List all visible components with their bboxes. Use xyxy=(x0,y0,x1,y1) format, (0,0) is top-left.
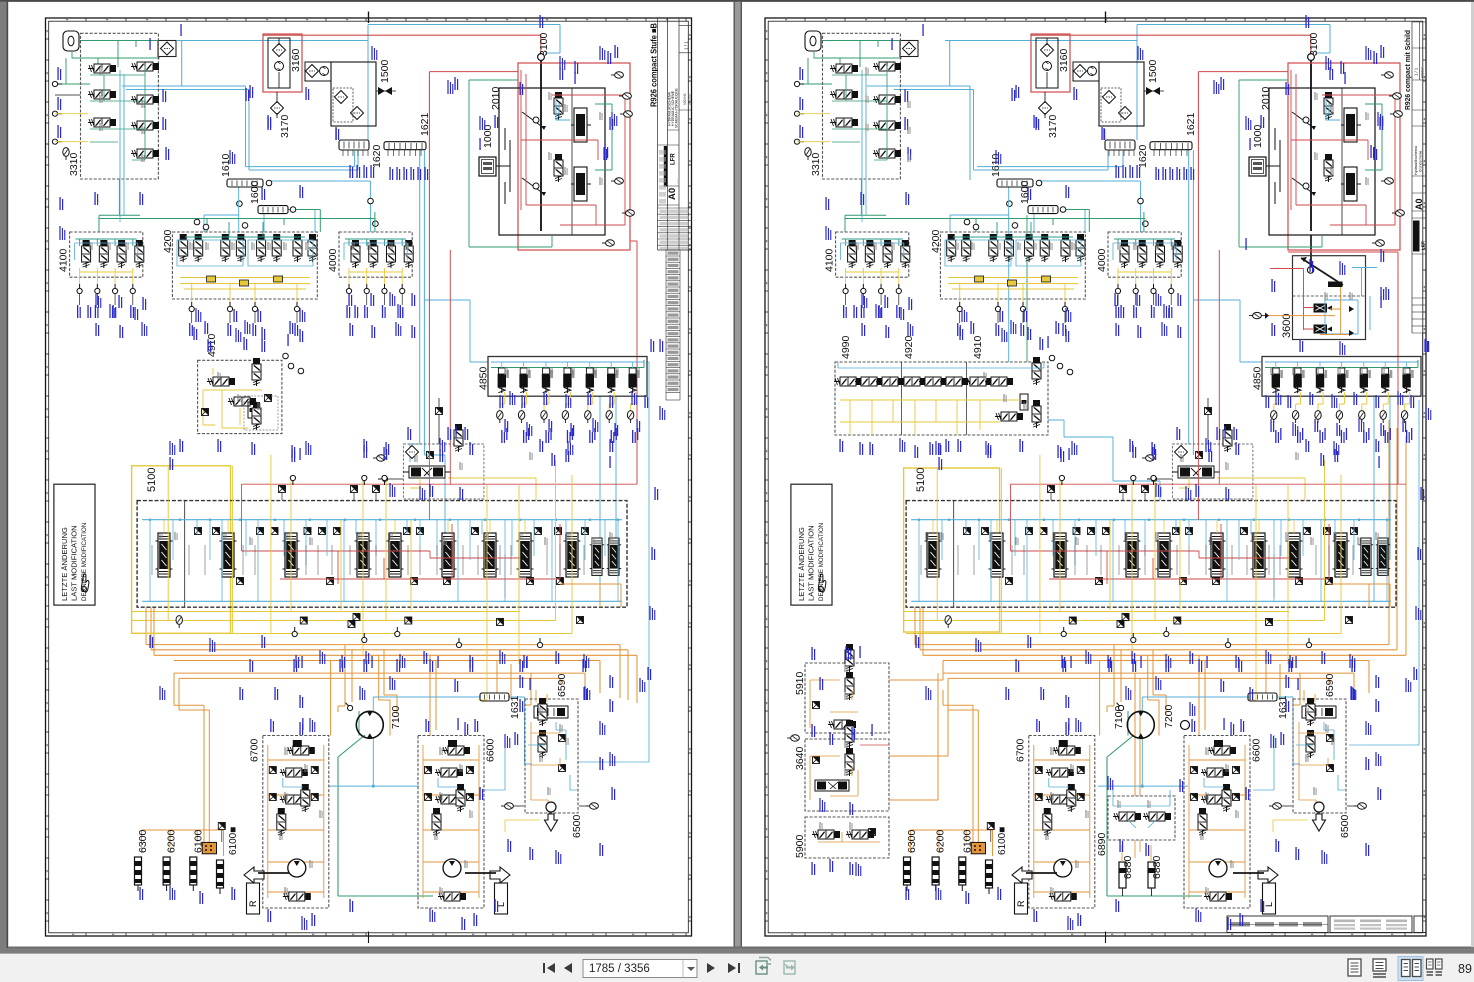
valve 49x0-6 P2 xyxy=(940,377,968,386)
pump inlet port P1 xyxy=(344,701,354,712)
variable pump P2 P1 xyxy=(571,108,591,142)
svg-text:LAST MODIFICATION: LAST MODIFICATION xyxy=(806,525,815,601)
valve 4910-3 P1 xyxy=(252,358,261,386)
yellow box-band P2 xyxy=(937,468,1001,492)
svg-text:Hydraulikschema: Hydraulikschema xyxy=(1414,145,1418,175)
gap between pages xyxy=(734,2,743,947)
check valves 3600 P2 xyxy=(1349,306,1354,336)
node 3100 P1 xyxy=(538,54,545,61)
red 2010-band P2 xyxy=(1288,252,1398,484)
spool section small 5100-10 P2 xyxy=(1359,538,1373,575)
shuttle 6600 P2 xyxy=(1204,892,1232,901)
pilot valve 3310-3 P1 xyxy=(88,118,116,127)
pilot lines 5100 P2 xyxy=(921,545,1377,575)
yellow drop 4850-7 P2 xyxy=(1405,392,1410,410)
blue labels 3310 P1 xyxy=(57,67,61,80)
valve 4200-7 P1 xyxy=(293,234,302,262)
cyan T2 line 6600 P2 xyxy=(1204,778,1224,787)
cyan 1610 drop xyxy=(238,187,240,232)
orange bundle rows P2 xyxy=(915,645,1406,693)
brake valve 6700 P1 xyxy=(301,784,310,812)
big valve 3640 P2 xyxy=(815,780,849,791)
check valve 5100-10 P1 xyxy=(472,528,479,535)
orange risers 6590 P2 xyxy=(1266,661,1300,706)
port label 4200-1 P2 xyxy=(957,323,961,336)
cyan below 3310 P2 xyxy=(862,179,866,222)
aux valve 5100-3 P1 xyxy=(411,578,418,585)
yellow left bundle P2 xyxy=(903,612,1341,634)
cyan 1600 right link P2 xyxy=(1066,210,1085,233)
svg-text:3100: 3100 xyxy=(538,32,550,56)
5100 inner divider P2 xyxy=(953,501,955,608)
spool section small 5100-11 P1 xyxy=(607,538,621,575)
shaft line 1800 P2 xyxy=(1266,128,1280,204)
accumulator 2 P2 xyxy=(932,857,939,891)
svg-text:6890: 6890 xyxy=(1096,832,1108,856)
check 6590 P2 xyxy=(1327,735,1334,742)
cyan riser tank P2 xyxy=(949,41,951,87)
blue labels below 5100 P2 xyxy=(1062,659,1066,672)
last-modification box P2 xyxy=(791,484,832,605)
cyan right descenders P2 xyxy=(1374,396,1390,601)
two page layout icon selected xyxy=(1398,957,1423,981)
last page button xyxy=(728,963,740,973)
yellow bus 4100 P1 xyxy=(80,268,133,272)
red pilot 3600 P2 xyxy=(1270,269,1313,331)
pilot valve 3310-6 P1 xyxy=(131,121,159,130)
yellow drain 6500 P1 xyxy=(505,820,540,832)
port label 4100-1 P2 xyxy=(843,305,847,318)
gauge 4850-5 P1 xyxy=(585,411,591,423)
yellow distribution 4200 P1 xyxy=(180,278,310,303)
check valve 5100-12 P1 xyxy=(555,528,562,535)
cyan riser from tank xyxy=(181,41,183,87)
svg-text:2010: 2010 xyxy=(490,86,502,110)
cyan link 6590 P2 xyxy=(1278,697,1300,764)
crawler flag L P1 xyxy=(490,867,510,914)
cyan pair 3310 to 1620 xyxy=(122,86,355,167)
svg-text:1600: 1600 xyxy=(249,180,261,204)
teal feed 4000 P2 xyxy=(1114,239,1175,246)
aux valve 5100-1 P2 xyxy=(1006,578,1013,585)
green pump suction xyxy=(358,711,360,736)
check valve 5100-11 P1 xyxy=(535,528,542,535)
svg-text:6300: 6300 xyxy=(137,829,149,853)
blue label right 4850 P1 xyxy=(650,339,654,352)
cyan upper run to 3100 xyxy=(368,25,560,54)
teal top feed 4200 P1 xyxy=(185,222,305,237)
check valve 5100-1 P2 xyxy=(964,528,971,535)
two page continuous icon xyxy=(1427,959,1443,975)
valve 4200-1 P1 xyxy=(179,234,188,262)
cyan net 6590 P1 xyxy=(528,722,578,790)
aux valve 5100-5 P1 xyxy=(527,578,534,585)
port label 4850-5 P1 xyxy=(589,430,593,443)
port 4100-1 P2 xyxy=(843,284,848,294)
svg-text:4850: 4850 xyxy=(478,366,490,390)
svg-text:5100: 5100 xyxy=(915,468,927,492)
filter 3160 inner box P2 xyxy=(1036,38,1058,88)
port label 4200-3 P2 xyxy=(1020,323,1024,336)
valve 5910-2 P2 xyxy=(845,672,854,700)
valve 4200-5 P1 xyxy=(257,234,266,262)
valve 6590-1 P1 xyxy=(538,698,547,726)
yellow lines 4910 P1 xyxy=(203,368,262,428)
orange bundle rows xyxy=(146,645,637,703)
valve 49x0-4 P2 xyxy=(898,377,926,386)
manifold 1600 P1 xyxy=(258,206,288,214)
small gauge 7040 P1 xyxy=(373,455,385,461)
valve 3600-1 P2 xyxy=(1314,304,1333,313)
previous view button xyxy=(756,958,771,975)
ports 4910 P1 xyxy=(283,353,289,359)
cyan top 49x0 P2 xyxy=(838,362,1044,368)
svg-text:3310: 3310 xyxy=(68,152,80,176)
svg-text:6600: 6600 xyxy=(485,738,497,762)
valve 4100-4 P1 xyxy=(135,240,144,268)
spool section 5100-6 P2 xyxy=(1209,533,1226,577)
port A2 P2 xyxy=(794,111,804,116)
tilt sensor lever 3600 P2 xyxy=(1301,258,1343,285)
svg-text:1631: 1631 xyxy=(1277,695,1289,719)
window left edge line xyxy=(7,0,9,948)
blue labels 3600 P2 xyxy=(1380,249,1384,262)
orange internals 6590 P1 xyxy=(531,722,560,806)
yellow spool feed 5100-6 P2 xyxy=(1216,520,1218,533)
port 4000-1 P1 xyxy=(346,284,351,294)
teal top feed 4200 P2 xyxy=(953,222,1073,237)
yellow spool feed 5100-7 P1 xyxy=(489,520,491,533)
page 1 drawing frame xyxy=(46,18,692,936)
title P1 left tiny rows xyxy=(659,150,666,204)
swing motor 6500 P2 xyxy=(1314,802,1324,812)
spool section 5100-2 P2 xyxy=(989,533,1006,577)
solenoid pair 6600 P1 xyxy=(442,746,470,755)
main pump 7100 P2 xyxy=(1127,711,1154,738)
port label 4200-2 P2 xyxy=(995,323,999,336)
yellow pilot out P2 xyxy=(1179,478,1305,500)
cyan below 3310 P1 xyxy=(120,179,124,222)
gauge 5900 P2 xyxy=(787,735,799,741)
title P2 small table xyxy=(1412,305,1426,326)
port label 4100-2 P1 xyxy=(95,305,99,318)
ports above 5100 P2 xyxy=(1059,475,1064,485)
xbox 5900 P2 xyxy=(869,829,876,836)
svg-text:6590: 6590 xyxy=(1324,673,1336,697)
svg-text:4100: 4100 xyxy=(58,248,70,272)
blue labels 3160 P1 xyxy=(267,117,271,130)
shuttle 6700 P2 xyxy=(1049,892,1077,901)
valve 4200-5 P2 xyxy=(1025,234,1034,262)
ports below 5100 P1 xyxy=(292,627,297,637)
valve 4200-2 P2 xyxy=(962,234,971,262)
port 4000-4 P1 xyxy=(400,284,405,294)
gauge 4850-5 P2 xyxy=(1359,411,1365,423)
valve 6590-2 P1 xyxy=(538,730,547,758)
yellow spool feed 5100-1 P1 xyxy=(163,520,165,533)
check valve 3160 P1 xyxy=(272,43,285,56)
accumulator 2 P1 xyxy=(163,857,170,891)
port T 4000 top P2 xyxy=(1138,198,1144,204)
red band left entry P2 xyxy=(1218,250,1220,447)
green return long xyxy=(338,735,433,896)
cyan bus 4850 P1 xyxy=(491,361,644,363)
main line to 3600 P2 xyxy=(1310,235,1312,267)
cyan drop 1621 pair xyxy=(420,150,425,455)
port circles manifold area P2 xyxy=(1007,201,1013,207)
port label 4200-4 P2 xyxy=(1062,323,1066,336)
svg-text:1 / 1: 1 / 1 xyxy=(1414,67,1419,76)
yellow spool feed 5100-8 P2 xyxy=(1293,520,1295,533)
small gauge 7040 P2 xyxy=(1142,455,1154,461)
main valve 6700-1 P2 xyxy=(1046,768,1074,777)
gauge 4850-3 P1 xyxy=(541,411,547,423)
gauge 4850-4 P1 xyxy=(562,411,568,423)
spool section 5100-9 P1 xyxy=(564,533,581,577)
shuttle valve 4200-1 P1 xyxy=(207,276,216,282)
gauge 4850-2 P2 xyxy=(1292,411,1298,423)
ports near 4100 top P1 xyxy=(194,219,200,225)
blue labels 6600 P1 xyxy=(425,719,429,732)
block 3600 P2 xyxy=(1293,256,1366,340)
port 1600 P1 xyxy=(290,207,296,213)
valve 4100-4 P2 xyxy=(901,240,910,268)
solenoid valve 4850-7 P1 xyxy=(628,368,639,393)
cyan right edge drop xyxy=(578,362,649,762)
last-modification box P1 xyxy=(54,484,95,605)
cyan left riser to 4100 xyxy=(204,215,239,232)
title P1 revision strip xyxy=(666,250,680,400)
shutoff valve 1500 P1 xyxy=(378,87,392,95)
yellow drop 4850-1 P1 xyxy=(500,392,505,410)
gear box 1800 P1 xyxy=(479,157,496,176)
xbox 5910 P2 xyxy=(813,702,820,709)
check valve 5100-4 P1 xyxy=(271,528,278,535)
first page button xyxy=(543,963,555,973)
pump block 2010 outline P2 xyxy=(1269,88,1375,235)
valve block 4100 P2 xyxy=(836,232,909,277)
yellow drop 4850-5 P1 xyxy=(588,392,593,410)
gauge 4850-2 P1 xyxy=(518,411,524,423)
valve 4100-3 P2 xyxy=(883,240,892,268)
check 6590 P1 xyxy=(559,735,566,742)
port 4000-2 P1 xyxy=(364,284,369,294)
port label 4850-3 P1 xyxy=(545,430,549,443)
xboxes 4910 P1 xyxy=(202,409,209,416)
next view button xyxy=(784,961,795,974)
motor circle 6700 P2 xyxy=(1054,859,1072,877)
below pages background xyxy=(0,949,1474,954)
green main return P2 xyxy=(845,179,1145,232)
motor-filter box P2 xyxy=(1073,62,1099,81)
valve 3600-2 P2 xyxy=(1314,325,1333,334)
motor circle 6700 P1 xyxy=(288,859,306,877)
port label 4850-6 P1 xyxy=(611,430,615,443)
gap left edge xyxy=(734,2,735,947)
valve 4100-2 P2 xyxy=(865,240,874,268)
main valve 6600-1 P2 xyxy=(1201,768,1229,777)
pilot valve 3310-7 P1 xyxy=(131,149,159,158)
check valve 5100-2 P2 xyxy=(982,528,989,535)
yellow band to 6600 xyxy=(478,634,487,701)
port 7040 P2 xyxy=(1147,476,1157,481)
component ref marks P2 xyxy=(866,67,869,75)
motor-filter box P1 xyxy=(305,62,331,81)
yellow drop 4850-6 P2 xyxy=(1383,392,1388,410)
valve 3640-2 P2 xyxy=(845,748,854,776)
crawler flag L P2 xyxy=(1258,867,1278,914)
aux valve 5100-3 P2 xyxy=(1180,578,1187,585)
svg-text:1500: 1500 xyxy=(1147,59,1159,83)
cyan right edge drop P2 xyxy=(1349,400,1419,745)
relief below 5100 P2 xyxy=(1069,617,1076,624)
pilot valve 3310-3 P2 xyxy=(830,118,858,127)
main valve 6600-2 P2 xyxy=(1201,795,1229,804)
title block P1 grid xyxy=(658,18,692,250)
valve 6890-2 P2 xyxy=(1143,812,1171,821)
previous page button xyxy=(564,963,572,973)
cyan 1610 to 4000 xyxy=(268,181,371,232)
port 4200-3 P1 xyxy=(252,302,257,312)
block 5910 P2 xyxy=(805,663,889,733)
orange internal 5100 P1 xyxy=(560,584,621,607)
track valve block 6600 P1 xyxy=(418,736,484,909)
cyan bus top 5100 P1 xyxy=(142,519,622,521)
orange drop 6700 P2 xyxy=(1099,661,1101,736)
manifold 1610 P2 xyxy=(997,179,1033,187)
cyan loop 4000 P2 xyxy=(1113,243,1176,260)
valve 4100-1 P2 xyxy=(848,240,857,268)
yellow pilot out P1 xyxy=(410,478,536,500)
blue labels 6600 P2 xyxy=(1191,719,1195,732)
yellow drop 4850-1 P2 xyxy=(1274,392,1279,410)
accumulator charging valve P2 xyxy=(1172,466,1220,478)
green 1600 to 4000 xyxy=(296,210,375,233)
svg-text:1621: 1621 xyxy=(1185,112,1197,136)
shuttle valve 4200-3 P1 xyxy=(274,276,283,282)
pump inlet port P2 xyxy=(1115,701,1125,712)
blue labels 3160 P2 xyxy=(1035,117,1039,130)
fold mark top P1 xyxy=(368,12,370,24)
solenoid valve 4850-3 P2 xyxy=(1316,368,1327,393)
page number input box xyxy=(583,960,697,978)
cyan 6590 down xyxy=(484,735,505,790)
cyan loop 4000 P1 xyxy=(344,243,407,260)
blue labels 2010 P2 xyxy=(1329,67,1333,80)
filter unit top right P2 xyxy=(900,41,918,57)
fold mark top P2 xyxy=(1105,12,1107,24)
check valve 5100-10 P2 xyxy=(1241,528,1248,535)
svg-text:1620: 1620 xyxy=(1137,144,1149,168)
check valve 5100-5 P1 xyxy=(304,528,311,535)
svg-text:3640: 3640 xyxy=(794,746,806,770)
port label 4850-6 P2 xyxy=(1385,430,1389,443)
port label 4850-4 P2 xyxy=(1341,430,1345,443)
orange acc header P2 xyxy=(911,830,993,856)
control block 3310 P2 xyxy=(823,33,901,179)
cyan 4850 feed xyxy=(424,300,488,362)
svg-text:7200: 7200 xyxy=(1163,704,1175,728)
port 4200-1 P2 xyxy=(957,302,962,312)
valve 4100-3 P1 xyxy=(117,240,126,268)
port label 4100-1 P1 xyxy=(77,305,81,318)
accumulator 4 P2 xyxy=(986,860,993,894)
svg-text:6500: 6500 xyxy=(571,814,583,838)
valve 4200-4 P1 xyxy=(236,234,245,262)
orange risers 6600 right xyxy=(497,661,531,706)
gauge 4850-3 P2 xyxy=(1315,411,1321,423)
relief xbox above P2 xyxy=(1205,408,1212,415)
cyan internal drops 5100 P1 xyxy=(150,520,618,601)
red 2010 to band right xyxy=(630,241,637,484)
port label 4850-2 P1 xyxy=(523,430,527,443)
yellow box to band xyxy=(168,466,232,492)
main valve 6700-2 P2 xyxy=(1046,795,1074,804)
block 3640 P2 xyxy=(805,739,889,811)
blue labels 5910 P2 xyxy=(811,647,815,660)
pilot pump 7200 P2 xyxy=(1181,721,1190,730)
blue labels 7040 P1 xyxy=(447,427,451,440)
port 4100-1 P1 xyxy=(77,284,82,294)
spool section 5100-1 P1 xyxy=(156,533,173,577)
page 2 paper xyxy=(742,2,1471,947)
gauge 4850-1 P1 xyxy=(497,411,503,423)
hydraulic tank P2 xyxy=(805,31,821,51)
cylinder 6880 L P2 xyxy=(1119,862,1126,888)
accumulator 1 P1 xyxy=(135,857,142,891)
relief valves above 5100 P2 xyxy=(1048,486,1055,493)
continuous layout icon xyxy=(1373,959,1386,977)
gauges 2010 P2 xyxy=(1381,72,1393,78)
gauge 4850-4 P2 xyxy=(1336,411,1342,423)
valve block 4000 P2 xyxy=(1108,232,1181,277)
svg-text:89: 89 xyxy=(1458,962,1472,976)
valve 4000-3 P2 xyxy=(1155,240,1164,268)
valve 4000-2 P2 xyxy=(1138,240,1147,268)
port 1610 P2 xyxy=(1036,180,1042,186)
valve 4000-3 P1 xyxy=(386,240,395,268)
relief 6100 P1 xyxy=(218,823,225,830)
cyan T2 line 6600 P1 xyxy=(438,778,458,787)
aux valve 5100-1 P1 xyxy=(237,578,244,585)
node 3100 P2 xyxy=(1308,54,1315,61)
accumulator charging valve P1 xyxy=(403,466,451,478)
flag L link line P2 xyxy=(1233,872,1264,874)
yellow spool feed 5100-1 P2 xyxy=(932,520,934,533)
port 4100-2 P1 xyxy=(95,284,100,294)
valve 5910-3 P2 xyxy=(828,720,856,729)
valve 4000-1 P2 xyxy=(1120,240,1129,268)
pilot valve 3310-5 P1 xyxy=(131,95,159,104)
orange right risers to 4850 P2 xyxy=(1389,420,1406,655)
next page button xyxy=(707,963,715,973)
port label 4850-1 P2 xyxy=(1275,430,1279,443)
cyan pilot 2010 P2 xyxy=(1326,99,1340,120)
svg-text:7100: 7100 xyxy=(390,705,402,729)
port 4100-3 P1 xyxy=(112,284,117,294)
green pump suction P2 xyxy=(1127,711,1129,736)
rotary block 6590 P2 xyxy=(1293,699,1346,813)
shaft line 1800 P1 xyxy=(496,128,510,204)
port 4200-4 P2 xyxy=(1062,302,1067,312)
aux valve 5100-4 P2 xyxy=(1213,578,1220,585)
variable pump P2 P2 xyxy=(1341,108,1361,142)
block 6890 P2 xyxy=(1108,796,1175,840)
yellow drop 4850-5 P2 xyxy=(1362,392,1367,410)
port 4000-3 P2 xyxy=(1151,284,1156,294)
ports above 5100 P1 xyxy=(290,475,295,485)
aux valve 5100-2 P1 xyxy=(327,578,334,585)
